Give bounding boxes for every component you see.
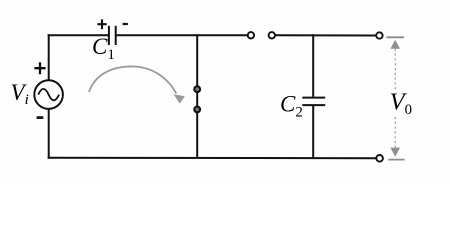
wire: bottom horizontal	[48, 157, 377, 159]
wire: middle vertical upper segment	[196, 34, 198, 86]
wire: top middle horizontal from C1 to open switch	[117, 34, 248, 36]
wire: switch S1 closed blade	[196, 92, 198, 107]
wire: middle vertical lower segment	[196, 112, 198, 159]
capacitor C2 top plate	[302, 97, 325, 99]
switch S1 terminal top	[194, 86, 200, 92]
dimension bottom cap	[388, 159, 404, 161]
node: output terminal bottom	[376, 155, 383, 162]
wire: top-left horizontal to C1 left plate	[48, 34, 108, 36]
node: output terminal top	[376, 32, 382, 38]
switch S2 open terminal left	[248, 32, 254, 38]
wire: C2 branch lower vertical	[312, 106, 314, 159]
wire: left vertical from top corner to source top	[48, 34, 50, 80]
capacitor C1 right plate	[115, 26, 117, 45]
dimension bottom arrowhead	[390, 148, 400, 157]
capacitor C2 bottom plate	[302, 104, 325, 106]
dimension top arrowhead	[390, 40, 400, 49]
label - of source	[37, 116, 44, 119]
dimension top cap	[386, 36, 404, 38]
source Vi circle	[34, 80, 63, 109]
source Vi sine wave	[38, 89, 59, 100]
wire: top right horizontal from switch to output terminal	[275, 34, 376, 36]
label + of C1	[97, 19, 106, 29]
annotation arrow head	[174, 94, 185, 103]
annotation arrow curve	[89, 66, 176, 93]
capacitor C1 left plate	[108, 26, 110, 45]
label - of C1	[123, 23, 128, 25]
dimension dashed line upper	[394, 49, 396, 90]
switch S2 open terminal right	[269, 32, 275, 38]
wire: C2 branch upper vertical	[312, 34, 314, 97]
switch S1 terminal bottom	[194, 107, 200, 113]
label + of source	[34, 62, 45, 74]
wire: left vertical from source bottom to bottom corner	[48, 109, 50, 159]
dimension dashed line lower	[394, 117, 396, 148]
